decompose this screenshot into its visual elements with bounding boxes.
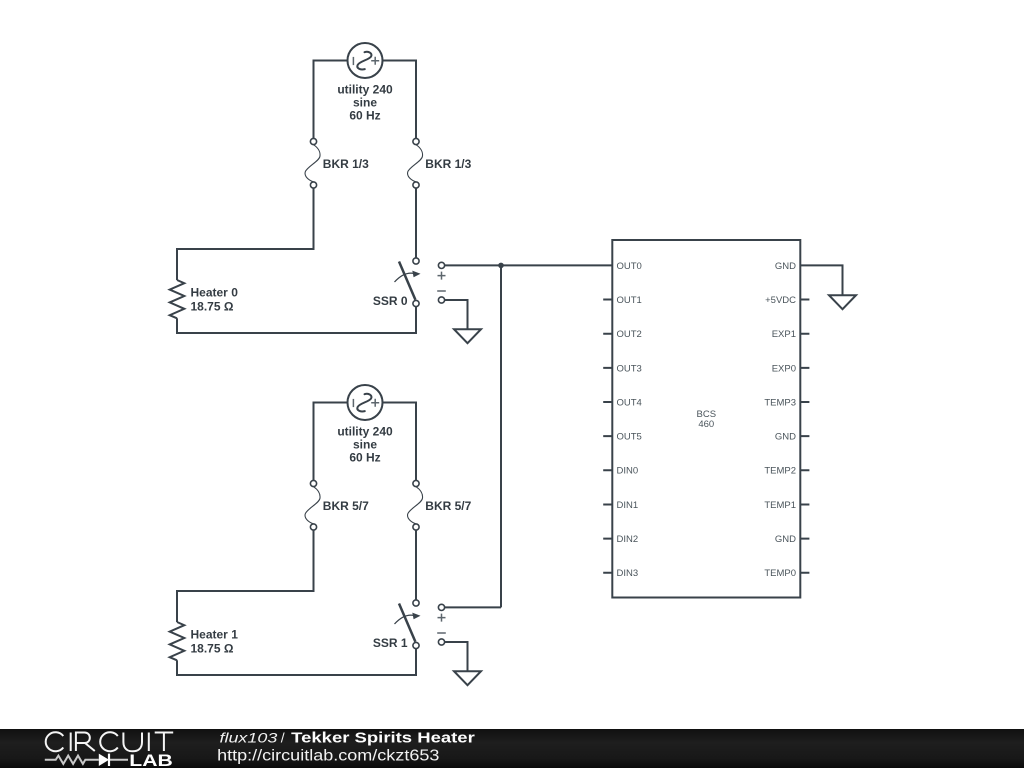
svg-text:http://circuitlab.com/ckzt653: http://circuitlab.com/ckzt653 (217, 748, 439, 765)
svg-text:DIN3: DIN3 (617, 568, 639, 579)
svg-text:Heater 1: Heater 1 (191, 628, 239, 642)
svg-text:Tekker Spirits Heater: Tekker Spirits Heater (291, 731, 475, 747)
svg-text:SSR 1: SSR 1 (373, 636, 408, 650)
svg-text:TEMP0: TEMP0 (764, 568, 796, 579)
svg-text:OUT2: OUT2 (617, 329, 642, 340)
svg-text:BKR 1/3: BKR 1/3 (425, 157, 471, 171)
svg-text:460: 460 (698, 419, 714, 430)
svg-text:60 Hz: 60 Hz (349, 109, 380, 123)
svg-text:TEMP3: TEMP3 (764, 397, 796, 408)
svg-text:BKR 5/7: BKR 5/7 (323, 499, 369, 513)
svg-text:TEMP1: TEMP1 (764, 500, 796, 511)
svg-text:flux103: flux103 (220, 730, 278, 746)
svg-text:18.75 Ω: 18.75 Ω (191, 300, 234, 314)
svg-text:LAB: LAB (129, 751, 173, 768)
svg-text:GND: GND (775, 432, 796, 443)
svg-text:BKR 5/7: BKR 5/7 (425, 499, 471, 513)
svg-text:sine: sine (353, 438, 377, 452)
svg-text:EXP0: EXP0 (772, 363, 796, 374)
svg-text:SSR 0: SSR 0 (373, 294, 408, 308)
svg-text:GND: GND (775, 534, 796, 545)
svg-text:DIN1: DIN1 (617, 500, 639, 511)
svg-text:OUT1: OUT1 (617, 295, 642, 306)
svg-text:GND: GND (775, 261, 796, 272)
svg-text:+5VDC: +5VDC (765, 295, 796, 306)
svg-text:DIN2: DIN2 (617, 534, 639, 545)
svg-text:DIN0: DIN0 (617, 466, 639, 477)
svg-text:OUT4: OUT4 (617, 397, 642, 408)
svg-text:OUT0: OUT0 (617, 261, 642, 272)
svg-text:TEMP2: TEMP2 (764, 466, 796, 477)
svg-text:Heater 0: Heater 0 (191, 286, 239, 300)
svg-text:OUT5: OUT5 (617, 432, 642, 443)
svg-text:utility 240: utility 240 (337, 424, 393, 438)
svg-text:sine: sine (353, 96, 377, 110)
svg-text:60 Hz: 60 Hz (349, 451, 380, 465)
svg-text:18.75 Ω: 18.75 Ω (191, 642, 234, 656)
svg-text:OUT3: OUT3 (617, 363, 642, 374)
svg-text:BKR 1/3: BKR 1/3 (323, 157, 369, 171)
svg-text:EXP1: EXP1 (772, 329, 796, 340)
svg-text:utility 240: utility 240 (337, 82, 393, 96)
svg-text:/: / (281, 730, 285, 746)
